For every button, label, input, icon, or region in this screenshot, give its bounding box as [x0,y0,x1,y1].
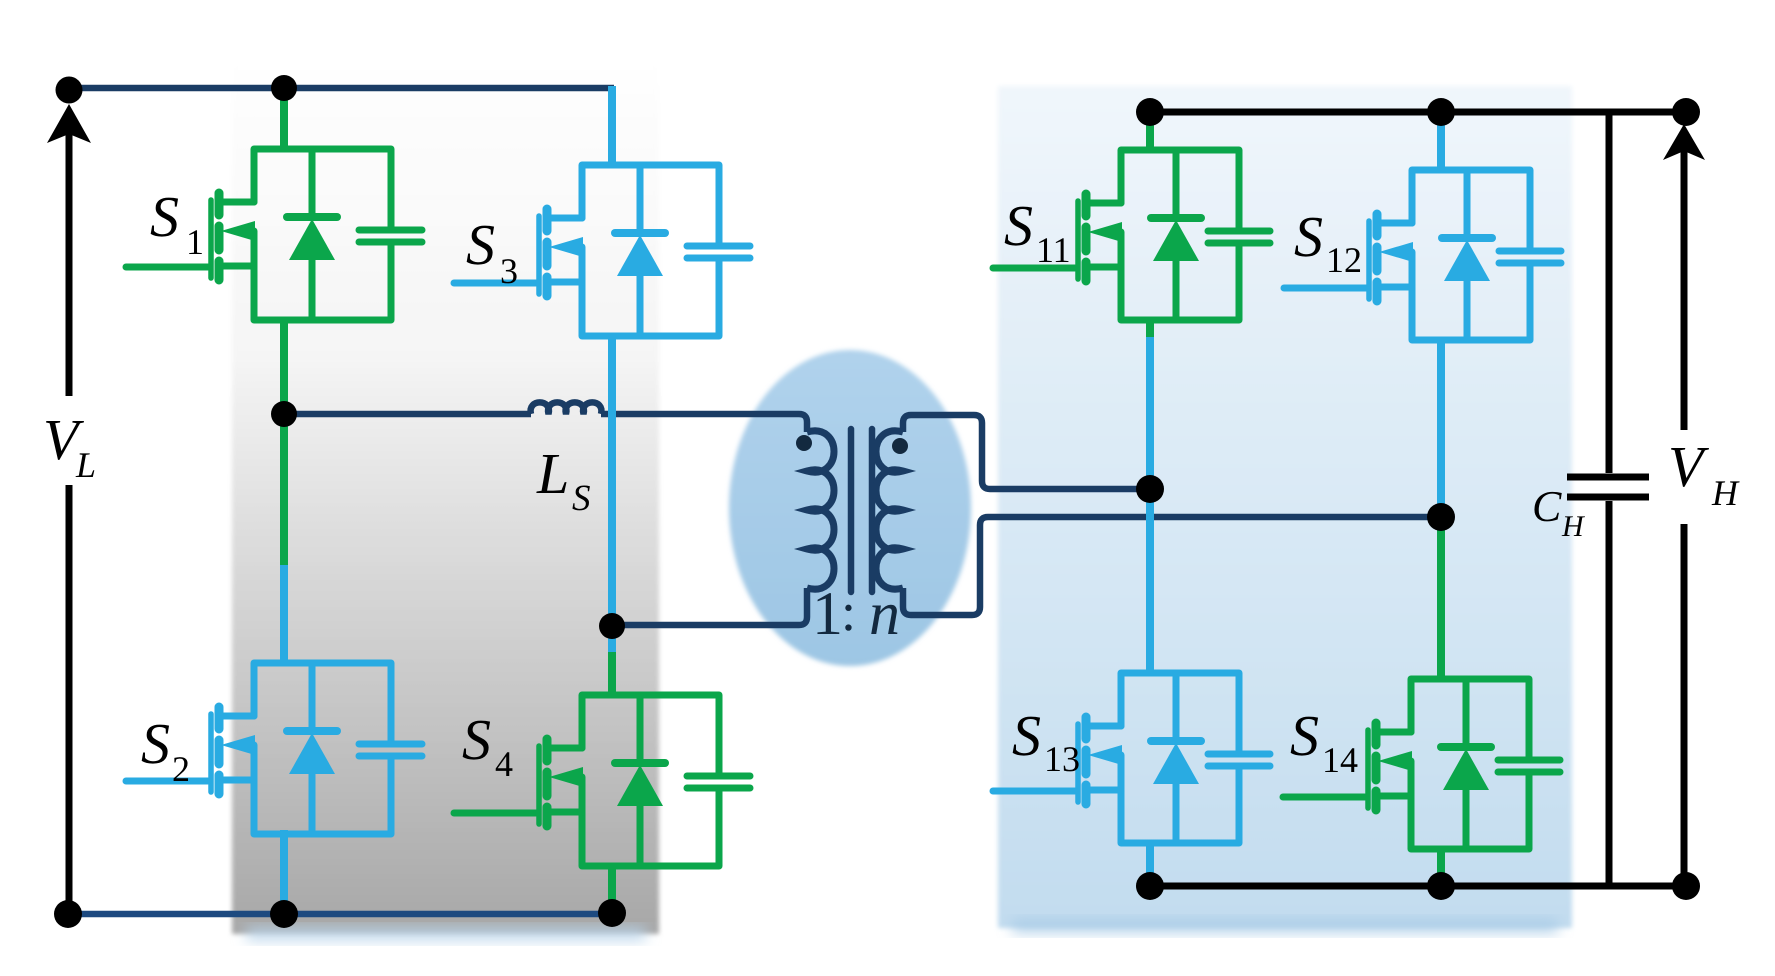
node A dot [271,401,297,427]
svg-text:S: S [1012,703,1041,768]
svg-text:11: 11 [1036,230,1071,270]
top-right DC rail [1150,109,1686,116]
svg-text:1: 1 [186,222,204,262]
transformer secondary winding [876,431,903,589]
bottom-right DC rail [1150,883,1686,890]
node D dot [1427,503,1455,531]
node dot S4 leg bottom [598,899,626,927]
switch S14 [1283,679,1560,849]
node dot top-left [56,77,83,104]
svg-text::: : [841,582,856,642]
wire S2 bottom stub [280,830,288,914]
svg-text:L: L [536,441,569,506]
transformer secondary phase dot [892,438,908,454]
wire S11 bottom green stub [1146,318,1154,337]
high-voltage panel bottom glow [1012,920,1558,932]
svg-text:1: 1 [812,580,843,648]
wire S11 to node C blue segment [1146,337,1154,489]
svg-text:13: 13 [1044,739,1080,779]
node dot bottom-left [54,900,82,928]
wire top-left DC rail [64,85,614,92]
svg-text:3: 3 [500,251,518,291]
transformer primary winding [807,431,834,589]
VL source line [66,134,73,914]
wire transformer secondary top to node C [903,415,1150,489]
low-voltage bridge background panel [232,46,659,934]
switch S13 [993,673,1270,843]
node dot S13 leg bottom [1136,872,1164,900]
high-voltage bridge background panel [998,86,1572,928]
node dot S1 leg top [271,75,297,101]
switch S4 [454,695,750,866]
svg-text:V: V [1668,434,1710,499]
capacitor CH plates [1567,477,1649,497]
transformer background ellipse [729,350,971,666]
wire S1 bottom to node A [280,318,288,414]
wire bottom-left DC rail [68,911,612,918]
svg-text:L: L [75,445,96,485]
node dot S2 leg bottom [270,900,298,928]
wire node C to S13 top [1146,489,1154,675]
svg-text:S: S [466,212,495,277]
node C dot [1136,475,1164,503]
node dot S12 leg top [1427,98,1455,126]
svg-text:S: S [462,707,491,772]
svg-text:S: S [150,184,179,249]
transformer core [851,429,872,592]
wire S11 leg top stub [1146,112,1154,152]
svg-text:2: 2 [172,749,190,789]
wire S3 bottom to node B [608,334,616,652]
wire inductor to transformer primary [601,414,807,432]
wire node A down green segment [280,414,288,565]
svg-text:H: H [1561,510,1586,543]
VL arrowhead [47,104,91,143]
transformer primary phase dot [796,435,812,451]
wire transformer primary bottom to node B [612,588,807,625]
wire S12 leg top stub [1437,112,1445,172]
svg-text:S: S [1290,703,1319,768]
wire node B to S4 green segment [608,652,616,697]
wire node A to inductor [284,411,531,418]
capacitor CH branch [1606,112,1613,886]
wire S1 leg top stub [280,88,288,151]
switch S3 [454,165,750,336]
node dot bottom-right [1672,872,1700,900]
svg-text:H: H [1711,473,1740,513]
VH line [1681,150,1688,886]
inductor LS [531,402,602,414]
wire S3 leg top stub [608,86,616,167]
switch S12 [1284,170,1561,340]
VH arrowhead [1663,124,1705,160]
svg-text:4: 4 [495,744,513,784]
node dot S14 leg bottom [1427,872,1455,900]
node B dot [599,613,625,639]
wire node D green segment to S14 [1437,505,1445,681]
wire to S2 top blue segment [280,565,288,665]
svg-text:n: n [869,580,900,648]
wire S14 bottom stub [1437,847,1445,886]
wire transformer secondary bottom to node D [903,517,1441,615]
svg-text:S: S [1004,193,1033,258]
switch S1 [126,149,422,320]
svg-text:14: 14 [1322,740,1358,780]
wire S12 bottom to node D blue segment [1437,338,1445,505]
svg-text:12: 12 [1326,240,1362,280]
svg-text:S: S [1294,204,1323,269]
switch S11 [993,150,1270,320]
node dot S11 leg top [1136,98,1164,126]
wire S13 bottom stub [1146,841,1154,886]
node dot top-right [1672,98,1700,126]
low-voltage panel bottom glow [246,928,646,940]
svg-text:S: S [572,478,591,519]
wire S4 bottom stub [608,864,616,913]
svg-text:S: S [141,711,170,776]
switch S2 [126,663,422,834]
svg-text:C: C [1532,482,1562,531]
